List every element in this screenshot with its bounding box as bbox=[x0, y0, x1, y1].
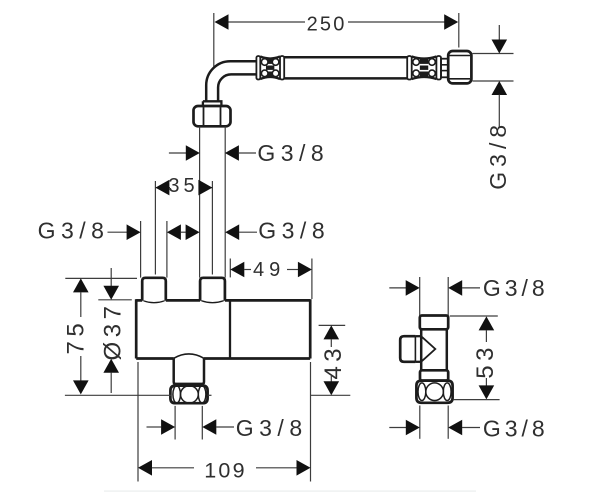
svg-text:G3/8: G3/8 bbox=[236, 415, 308, 441]
left port G3/8 arrow bbox=[108, 224, 141, 240]
svg-text:G3/8: G3/8 bbox=[483, 275, 549, 301]
dimension 49 extension line left bbox=[229, 259, 231, 278]
dimension 109 label bbox=[204, 458, 246, 482]
side view bottom G3/8 dimension bbox=[389, 420, 480, 436]
right inlet boss bbox=[200, 278, 225, 303]
outlet neck dome bbox=[174, 354, 204, 358]
side view nut bbox=[416, 381, 452, 403]
hose-to-valve G3/8 dimension bbox=[169, 145, 256, 161]
hose nut G3/8 arrows bbox=[492, 25, 508, 127]
dimension 35 line and arrows bbox=[155, 180, 212, 196]
dimension 49 extension line right bbox=[311, 259, 313, 300]
dimension 75 label bbox=[63, 319, 90, 355]
svg-text:Ø37: Ø37 bbox=[99, 302, 126, 361]
side view seat cone bbox=[422, 337, 436, 361]
outlet G3/8 dimension bbox=[147, 419, 235, 435]
dimension 250 line and arrows bbox=[215, 14, 459, 30]
side view body bbox=[421, 329, 447, 370]
outlet G3/8 extension lines bbox=[175, 406, 202, 440]
outlet neck bbox=[174, 359, 204, 384]
dimension 35 centerline left bbox=[154, 181, 156, 275]
dimension diameter 37 reference line bbox=[98, 299, 132, 301]
dimension 49 label bbox=[253, 259, 285, 281]
right port extension lines from hose nut bbox=[200, 127, 226, 278]
hose elbow tube bbox=[203, 61, 257, 106]
svg-text:109: 109 bbox=[204, 458, 246, 482]
bottom reference line right stub bbox=[208, 394, 212, 396]
dimension 35 label bbox=[168, 175, 198, 197]
svg-text:35: 35 bbox=[168, 175, 198, 197]
dimension diameter 37 label bbox=[99, 302, 126, 361]
svg-text:49: 49 bbox=[253, 259, 285, 281]
dimension 35 centerline right bbox=[211, 181, 213, 275]
hose right nut bbox=[448, 51, 471, 83]
valve body bbox=[136, 299, 310, 358]
svg-text:43: 43 bbox=[320, 344, 347, 380]
left port G3/8 label bbox=[38, 217, 110, 243]
dimension 49 line and arrows bbox=[230, 262, 312, 278]
svg-text:G3/8: G3/8 bbox=[257, 140, 329, 166]
valve body divider bbox=[229, 300, 231, 358]
dimension 250 label bbox=[307, 14, 347, 36]
side view bottom G3/8 label bbox=[483, 416, 549, 442]
svg-text:75: 75 bbox=[63, 319, 90, 355]
dimension diameter 37 line and arrows bbox=[103, 268, 119, 393]
bottom reference line left bbox=[65, 394, 171, 396]
dimension 43 top reference line bbox=[319, 324, 346, 326]
right port G3/8 arrow bbox=[225, 224, 257, 240]
side view collar bbox=[420, 370, 448, 380]
side view top cap bbox=[420, 316, 448, 330]
between-port G3/8 arrows bbox=[167, 224, 200, 240]
side view bottom extension lines bbox=[420, 406, 448, 439]
hose right crimp ferrule bbox=[407, 56, 441, 80]
hose-to-valve G3/8 label bbox=[257, 140, 329, 166]
dimension 43 bottom reference line bbox=[310, 394, 350, 396]
side view top extension lines bbox=[420, 277, 449, 316]
hose left crimp ferrule bbox=[256, 56, 284, 80]
dimension 53 line and arrows bbox=[479, 316, 495, 399]
hose nut G3/8 extension lines bbox=[473, 54, 514, 82]
dimension 53 bottom reference line bbox=[453, 399, 499, 401]
side view port box bbox=[400, 336, 421, 362]
dimension 43 label bbox=[320, 344, 347, 380]
left port extension lines bbox=[141, 221, 167, 278]
hose nut G3/8 vertical label bbox=[485, 120, 511, 190]
hose tube bbox=[284, 57, 407, 78]
dimension 53 label bbox=[472, 343, 499, 379]
side view top G3/8 label bbox=[483, 275, 549, 301]
svg-text:53: 53 bbox=[472, 343, 499, 379]
hose left nut bbox=[194, 106, 231, 126]
dimension 43 line and arrows bbox=[324, 325, 340, 395]
svg-text:G3/8: G3/8 bbox=[485, 120, 511, 190]
dimension 75 line and arrows bbox=[73, 278, 89, 394]
dimension 250 extension line left bbox=[213, 13, 215, 68]
svg-text:G3/8: G3/8 bbox=[258, 218, 330, 244]
outlet G3/8 label bbox=[236, 415, 308, 441]
hose right nipple bbox=[441, 59, 448, 78]
side view top G3/8 dimension bbox=[389, 280, 480, 296]
faint bottom artifact row bbox=[104, 490, 476, 492]
svg-text:G3/8: G3/8 bbox=[38, 217, 110, 243]
dimension 109 line and arrows bbox=[138, 460, 311, 476]
dimension 109 extension line right bbox=[310, 362, 312, 482]
outlet nut front bbox=[170, 386, 207, 404]
right port G3/8 label bbox=[258, 218, 330, 244]
dimension 75 top reference line bbox=[65, 277, 137, 279]
dimension 53 top reference line bbox=[450, 315, 498, 317]
svg-text:G3/8: G3/8 bbox=[483, 416, 549, 442]
svg-text:250: 250 bbox=[307, 14, 347, 36]
dimension 250 extension line right bbox=[458, 13, 460, 48]
dimension 109 extension line left bbox=[137, 362, 139, 482]
left inlet boss bbox=[142, 278, 166, 303]
